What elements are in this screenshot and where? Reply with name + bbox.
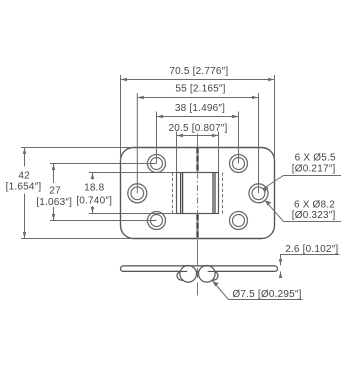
hole middle-right [249, 184, 268, 203]
callout 6 X 5.5 text [292, 152, 336, 174]
svg-text:[Ø0.217″]: [Ø0.217″] [292, 163, 336, 174]
svg-text:70.5 [2.776″]: 70.5 [2.776″] [169, 66, 228, 77]
dim text 27 [36, 186, 72, 209]
dimension line 27 vertical [52, 164, 55, 221]
svg-text:[Ø0.323″]: [Ø0.323″] [292, 210, 336, 221]
side view center line [197, 240, 199, 296]
svg-text:[0.740″]: [0.740″] [76, 195, 112, 206]
extension lines dim 20.5 [177, 132, 219, 173]
dimension line 55 [137, 96, 258, 99]
callout 6 X 8.2 text [292, 199, 336, 221]
svg-text:42: 42 [18, 170, 30, 181]
side view left knuckle circle [180, 266, 197, 283]
svg-text:Ø7.5 [Ø0.295″]: Ø7.5 [Ø0.295″] [232, 289, 301, 300]
extension lines dim 38 [157, 112, 239, 164]
hole middle-left [128, 184, 147, 203]
dimension line 38 [157, 115, 239, 118]
svg-text:27: 27 [49, 186, 61, 197]
dim text 42 [6, 170, 42, 192]
center line above body [197, 134, 199, 148]
hole top-right [230, 155, 248, 173]
hinge body outline (front view) [121, 148, 275, 239]
dimension line 70.5 [121, 78, 275, 81]
svg-text:[1.063″]: [1.063″] [36, 197, 72, 208]
svg-text:38 [1.496″]: 38 [1.496″] [175, 103, 225, 114]
leader dim 7.5 [213, 281, 303, 300]
side view plate top surface line [123, 265, 275, 267]
side view right hook [209, 271, 218, 280]
knuckle hidden dashed line left [172, 173, 174, 214]
knuckle hidden dashed line right [222, 173, 224, 214]
svg-text:6 X Ø8.2: 6 X Ø8.2 [294, 199, 335, 210]
svg-text:2.6 [0.102″]: 2.6 [0.102″] [285, 244, 338, 255]
leader 6 X 5.5 [263, 176, 341, 192]
extension lines dim 27 [50, 164, 157, 221]
dim text 18.8 [76, 183, 112, 207]
extension lines dim 42 [21, 148, 134, 239]
side view left hook [177, 271, 186, 280]
svg-text:18.8: 18.8 [84, 183, 105, 194]
svg-text:6 X Ø5.5: 6 X Ø5.5 [295, 152, 336, 163]
svg-text:55 [2.165″]: 55 [2.165″] [175, 83, 225, 94]
extension lines dim 55 [137, 93, 258, 193]
extension lines dim 18.8 [89, 173, 177, 214]
hole bottom-right [230, 212, 248, 230]
side view plate [121, 266, 278, 272]
side view plate bottom surface lines [123, 270, 275, 272]
extension lines dim 70.5 [121, 75, 275, 161]
hole bottom-left [148, 212, 166, 230]
svg-text:20.5 [0.807″]: 20.5 [0.807″] [169, 123, 228, 134]
svg-text:[1.654″]: [1.654″] [6, 181, 42, 192]
knuckle inner line right pair [213, 173, 215, 214]
knuckle box [177, 173, 219, 214]
leader 6 X 8.2 [265, 200, 341, 221]
side view right knuckle circle [199, 266, 216, 283]
leaf gap line above knuckle [196, 148, 198, 173]
leaf gap line below knuckle [196, 214, 198, 239]
center line through knuckle [197, 173, 199, 214]
hole top-left [148, 155, 166, 173]
dimension line 18.8 vertical [91, 173, 94, 214]
knuckle inner line left pair [181, 173, 183, 214]
dimension line 20.5 [177, 134, 219, 137]
dimension line 42 vertical [23, 148, 26, 239]
leader and arrows dim 2.6 [279, 255, 340, 279]
